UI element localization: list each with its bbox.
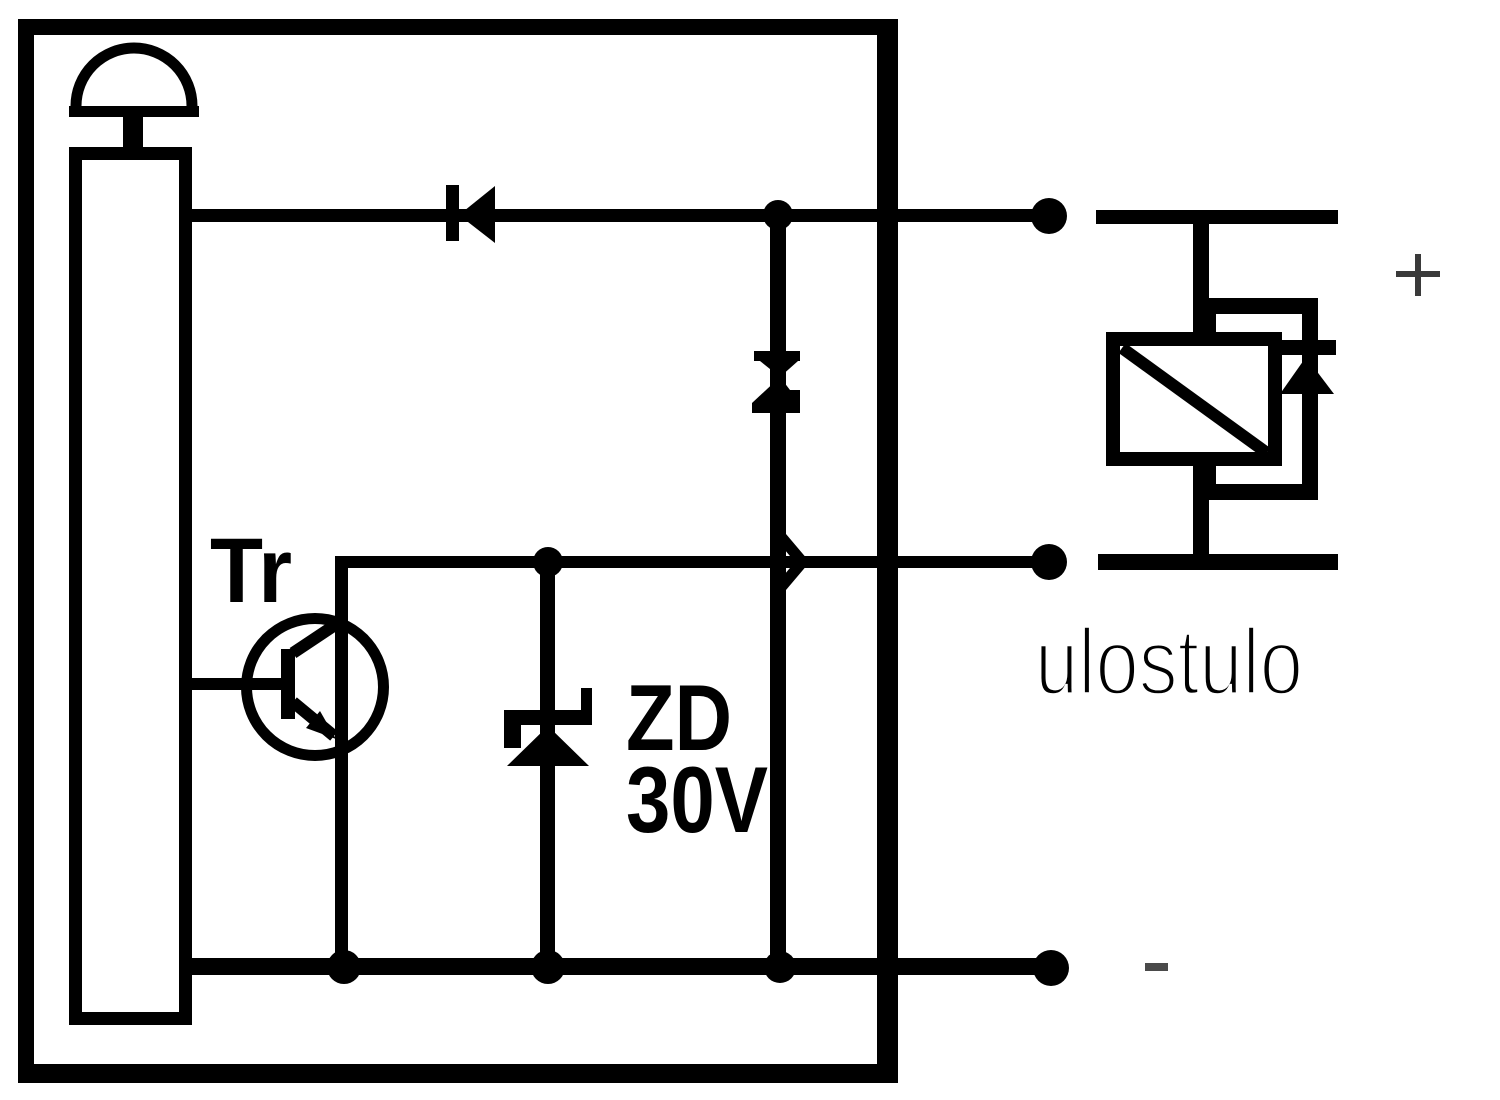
svg-text:ulostulo: ulostulo — [1035, 609, 1303, 714]
svg-text:30V: 30V — [626, 747, 768, 852]
svg-text:Tr: Tr — [210, 520, 292, 622]
